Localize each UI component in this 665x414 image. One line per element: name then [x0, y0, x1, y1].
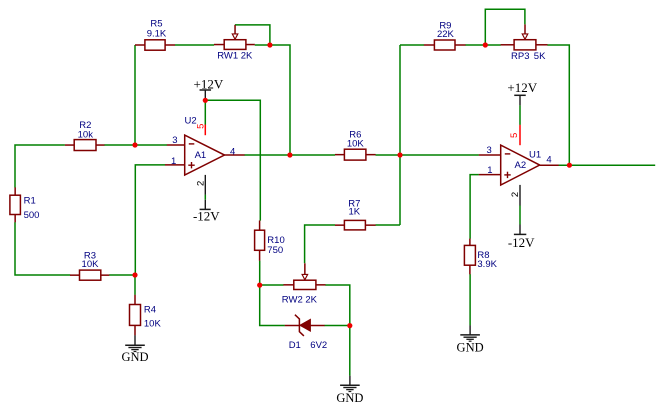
svg-text:3: 3: [172, 135, 177, 146]
svg-text:10K: 10K: [144, 319, 162, 330]
svg-text:D1: D1: [289, 340, 301, 351]
svg-text:9.1K: 9.1K: [147, 28, 167, 39]
potentiometer RW1 wiper: [234, 25, 236, 34]
resistor R10: [255, 230, 265, 250]
svg-text:3: 3: [486, 145, 491, 156]
wire node to RW2-left: [260, 284, 284, 286]
svg-text:500: 500: [24, 210, 40, 221]
ground bars: [340, 384, 360, 386]
wire R3-left to R1-bottom: [15, 222, 70, 275]
wire D1 anode to node: [324, 325, 349, 327]
power symbol -12V bar (A1): [200, 208, 211, 210]
resistor R8 leads: [469, 239, 471, 246]
resistor R3 leads: [70, 274, 80, 276]
junction node D1/RW2/GND: [347, 323, 352, 328]
diode D1 leads: [285, 325, 300, 327]
wire node-B up to R5: [134, 45, 136, 145]
wire RP3 wiper bypass: [485, 9, 525, 45]
wire R7-right up to node: [376, 224, 401, 226]
svg-text:R1: R1: [24, 196, 36, 207]
power symbol +12V stem: [204, 90, 206, 100]
potentiometer RW2 wiper: [304, 263, 306, 274]
ground stem: [349, 376, 351, 386]
svg-text:RW1 2K: RW1 2K: [217, 50, 253, 61]
resistor R8: [464, 245, 475, 265]
svg-text:3.9K: 3.9K: [477, 259, 497, 270]
svg-text:4: 4: [546, 154, 551, 165]
junction node +12V/R10: [203, 98, 208, 103]
op-amp A2 pin 1 lead: [479, 174, 501, 176]
potentiometer RP3 leads: [501, 44, 514, 46]
resistor R9 leads: [424, 44, 435, 46]
ground stem: [134, 335, 136, 345]
potentiometer RW2: [294, 280, 316, 289]
svg-text:RW2 2K: RW2 2K: [282, 294, 318, 305]
svg-text:1: 1: [171, 156, 176, 167]
svg-text:A2: A2: [515, 160, 527, 171]
ground bars: [460, 334, 480, 336]
resistor R5 leads: [135, 44, 145, 46]
power symbol +12V bar: [514, 94, 526, 96]
svg-text:5K: 5K: [534, 51, 546, 62]
op-amp A2 pin 2 lead: [519, 185, 521, 206]
wire R2-right to A1 pin3: [104, 144, 167, 146]
ground bars: [125, 344, 145, 346]
svg-text:5: 5: [196, 124, 207, 129]
wire +12V to R10 top: [205, 100, 260, 220]
resistor R7: [344, 220, 365, 230]
svg-text:RP3: RP3: [511, 51, 529, 62]
junction node R9/RP3 wiper: [483, 42, 488, 47]
op-amp A2 plus sign: [504, 174, 510, 176]
op-amp A2: [501, 145, 540, 185]
wire A2 pin1 to R8: [470, 175, 479, 239]
op-amp A1 minus sign: [189, 143, 195, 145]
op-amp A2 pin 3 lead: [479, 154, 501, 156]
wire R3-right to node: [109, 274, 135, 276]
junction node R3/R4/pin1: [132, 272, 137, 277]
resistor R4 leads: [134, 295, 136, 305]
svg-text:GND: GND: [457, 340, 484, 354]
svg-text:+12V: +12V: [507, 80, 537, 95]
junction node R2/R5/pin3: [132, 142, 137, 147]
svg-text:10K: 10K: [347, 138, 365, 149]
resistor R2: [74, 140, 96, 151]
op-amp A1 pin 4 output lead: [224, 154, 244, 156]
diode D1 triangle: [300, 319, 311, 331]
wire A1 output to R6: [244, 154, 335, 156]
op-amp A1 pin 1 lead: [165, 164, 185, 166]
svg-text:6V2: 6V2: [310, 340, 327, 351]
svg-text:-12V: -12V: [193, 209, 220, 224]
junction node R6/R7/R9/pin3: [397, 152, 402, 157]
svg-text:2: 2: [195, 181, 206, 186]
svg-text:5: 5: [509, 133, 520, 138]
wire A1 pin1 to R3/R4 node: [135, 165, 165, 275]
wire R9 feedback vertical: [399, 45, 401, 225]
op-amp A2 minus sign: [505, 153, 511, 155]
svg-text:GND: GND: [121, 350, 148, 364]
svg-text:-12V: -12V: [508, 235, 535, 250]
resistor R3: [80, 270, 101, 280]
svg-text:750: 750: [267, 245, 283, 256]
svg-text:22K: 22K: [437, 29, 455, 40]
op-amp A2 pin 4 output lead: [540, 164, 559, 166]
power symbol -12V stem (A2): [519, 225, 521, 235]
op-amp A1 pin 3 lead: [167, 144, 185, 146]
wire A2 output: [559, 164, 656, 166]
resistor R6: [344, 149, 366, 160]
wire RP3-right down to A2 output: [547, 45, 569, 165]
resistor R5: [145, 40, 165, 50]
svg-text:A1: A1: [195, 150, 207, 161]
wire RW2-right down to ground: [325, 285, 350, 376]
diode D1 zener cathode bar: [295, 315, 304, 336]
svg-text:10k: 10k: [78, 129, 94, 140]
wire R7-left to RW2 wiper: [305, 225, 336, 263]
wire +12V to A1 pin5: [204, 100, 206, 124]
junction node A1 output: [287, 152, 292, 157]
junction node RW1 wiper/right: [267, 42, 272, 47]
wire +12V to A2 pin5: [519, 105, 521, 125]
potentiometer RW1 leads: [214, 44, 224, 46]
resistor R6 leads: [335, 154, 344, 156]
svg-text:U1: U1: [529, 150, 541, 161]
svg-text:R4: R4: [144, 305, 156, 316]
resistor R1 leads: [14, 187, 16, 195]
potentiometer RP3 wiper: [524, 24, 526, 33]
wire R2-left to R1-top: [15, 145, 65, 188]
wire A2 pin2 to -12V: [519, 205, 521, 224]
resistor R9: [434, 40, 455, 50]
svg-text:+12V: +12V: [194, 77, 224, 92]
resistor R1: [10, 195, 21, 214]
op-amp A1 plus sign: [188, 164, 194, 166]
resistor R7 leads: [335, 224, 344, 226]
svg-text:GND: GND: [336, 391, 363, 405]
power symbol -12V bar (A2): [514, 233, 526, 235]
junction node R10/RW2/D1: [257, 283, 262, 288]
potentiometer RP3: [514, 40, 536, 50]
op-amp A2 pin 5 lead: [519, 125, 521, 145]
potentiometer RW2 leads: [283, 284, 293, 286]
svg-text:1K: 1K: [348, 206, 360, 217]
wire R5 to RW1: [175, 44, 214, 46]
resistor R4: [130, 305, 141, 326]
power symbol +12V bar: [200, 89, 212, 91]
wire node to R4 top: [134, 275, 136, 295]
potentiometer RW1: [224, 40, 246, 50]
wire R9-left: [400, 44, 424, 46]
junction node A2 output: [567, 163, 572, 168]
svg-text:4: 4: [230, 146, 235, 157]
wire RW1 wiper bypass: [235, 25, 270, 45]
svg-text:2: 2: [510, 192, 521, 197]
wire R10-bottom to D1 cathode: [260, 261, 285, 326]
op-amp A1 pin 5 lead: [204, 125, 206, 136]
power symbol -12V stem (A1): [204, 200, 206, 210]
ground stem: [469, 325, 471, 335]
wire RW1-right down to A1 output: [255, 45, 290, 155]
power symbol +12V stem: [519, 95, 521, 105]
wire R6-right to A2 pin3: [376, 154, 479, 156]
wire R9-right to RP3-left: [465, 44, 501, 46]
op-amp A1: [185, 135, 225, 175]
resistor R2 leads: [65, 144, 74, 146]
resistor R10 leads: [259, 221, 261, 231]
wire A1 pin2 to -12V: [204, 195, 206, 200]
wire R8-bottom to ground: [469, 274, 471, 325]
op-amp A1 pin 2 lead: [204, 175, 206, 195]
svg-text:10K: 10K: [82, 259, 100, 270]
svg-text:1: 1: [487, 165, 492, 176]
